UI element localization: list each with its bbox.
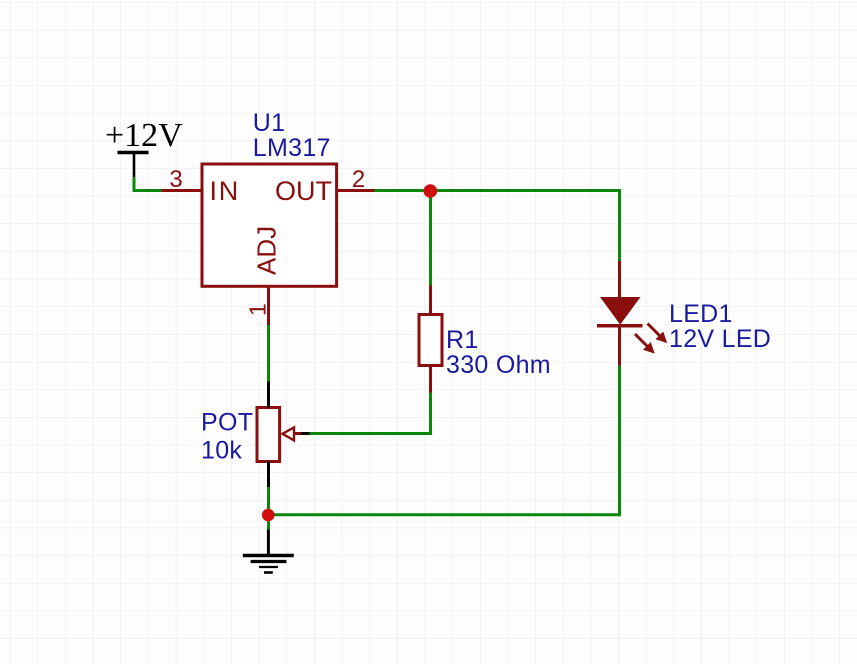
svg-text:2: 2: [352, 166, 365, 193]
LED LED1 bottom pin: [618, 326, 621, 366]
resistor R1 body: [419, 315, 442, 366]
svg-text:3: 3: [169, 166, 182, 193]
wire node A down to R1: [429, 191, 432, 286]
LED light arrow 1: [644, 320, 671, 347]
resistor R1 top pin: [429, 286, 432, 315]
svg-text:+12V: +12V: [105, 117, 183, 154]
wire ADJ pin to POT: [267, 325, 270, 382]
wire R1 to POT wiper: [310, 393, 431, 434]
junction node A: [424, 184, 438, 198]
wire right column bottom: [618, 366, 621, 517]
potentiometer POT body: [257, 408, 280, 462]
POT bottom pin: [267, 462, 270, 488]
op-amp U1 body (LM317 regulator box): [202, 164, 337, 286]
svg-text:ADJ: ADJ: [252, 226, 282, 275]
svg-text:12V LED: 12V LED: [669, 325, 771, 353]
U1 pin 3 (IN): [162, 189, 203, 192]
svg-text:U1: U1: [253, 109, 286, 137]
ground stem: [267, 530, 270, 557]
LED LED1 top pin: [618, 261, 621, 298]
junction node B: [262, 509, 275, 522]
LED LED1 triangle: [601, 298, 640, 324]
U1 pin 2 (OUT): [337, 189, 375, 192]
wire +12V to pin 3: [134, 177, 162, 191]
ground: [243, 556, 294, 573]
POT top pin: [267, 382, 270, 408]
svg-text:OUT: OUT: [275, 176, 332, 206]
svg-text:10k: 10k: [201, 437, 242, 465]
wire pin2 to LED column: [375, 189, 620, 192]
svg-text:LED1: LED1: [669, 300, 733, 328]
wire right column top: [618, 189, 621, 261]
svg-text:R1: R1: [446, 326, 479, 354]
LED LED1 cathode bar: [597, 324, 643, 328]
U1 pin 1 (ADJ): [267, 286, 270, 325]
LED light arrow 2: [631, 330, 658, 357]
svg-text:IN: IN: [210, 176, 241, 206]
POT wiper arrow: [283, 427, 310, 440]
power flag +12V symbol: [118, 153, 149, 178]
svg-text:1: 1: [245, 303, 271, 316]
svg-text:330 Ohm: 330 Ohm: [446, 351, 551, 379]
svg-text:POT: POT: [201, 409, 253, 437]
wire POT to ground node: [267, 487, 270, 530]
wire bottom horizontal: [268, 513, 619, 516]
resistor R1 bottom pin: [429, 366, 432, 393]
svg-text:LM317: LM317: [253, 134, 331, 162]
